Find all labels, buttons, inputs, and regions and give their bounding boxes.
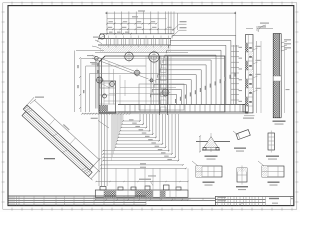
parts list strip along bottom: [8, 196, 215, 206]
diagonal elongated part (lower left view): [19, 97, 107, 181]
vertical dimension chain right of plate: [231, 45, 242, 105]
title block: [215, 196, 293, 205]
detail view: block with slots: [192, 161, 222, 186]
toothed rack element along plate bottom: [81, 105, 248, 115]
segmented bar section view: [243, 29, 261, 119]
detail view: small block: [236, 166, 248, 191]
dimension stack above main plate: [97, 10, 236, 42]
leader notes upper right of plate: [173, 21, 187, 37]
main plate view with holes: [75, 37, 225, 116]
detail view: angled piece: [233, 130, 250, 152]
leader note above bars: [258, 23, 269, 33]
bottom horizontal bar section view: [95, 169, 189, 201]
comb of small components on top rail: [95, 34, 188, 53]
detail view: wide block: [258, 161, 284, 186]
detail view: narrow vertical pin: [266, 131, 279, 160]
detail view: cone/triangle: [196, 133, 230, 160]
fan of stacked dimension lines below plate: [91, 114, 187, 186]
ordinate extension lines with staggered labels: [150, 36, 235, 105]
hatched bar section with label: [257, 26, 291, 125]
